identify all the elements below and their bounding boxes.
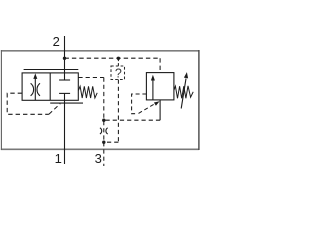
svg-text:1: 1	[55, 151, 62, 166]
svg-text:3: 3	[95, 151, 102, 166]
svg-text:?: ?	[115, 67, 122, 81]
svg-text:2: 2	[53, 34, 60, 49]
